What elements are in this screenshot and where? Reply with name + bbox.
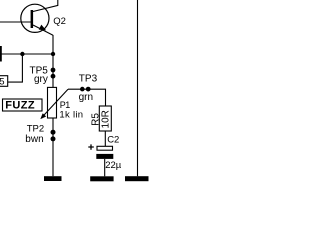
test point TP5	[30, 65, 56, 85]
wire horizontal to left edge	[0, 53, 53, 55]
svg-text:bwn: bwn	[25, 134, 43, 145]
svg-text:C2: C2	[107, 134, 119, 145]
transistor Q2	[21, 0, 66, 35]
svg-text:TP2: TP2	[27, 123, 44, 134]
svg-text:TP3: TP3	[79, 74, 98, 85]
svg-text:10R: 10R	[101, 110, 112, 128]
label FUZZ	[3, 99, 43, 111]
wire P1 bottom to ground	[52, 118, 54, 176]
svg-text:1k lin: 1k lin	[59, 110, 83, 121]
svg-text:Q2: Q2	[53, 16, 66, 27]
component box 5 cut off at left edge	[0, 76, 8, 88]
svg-text:22µ: 22µ	[105, 160, 122, 171]
wire TP5 vertical	[52, 54, 54, 87]
svg-text:P1: P1	[60, 100, 71, 110]
wire wiper to R5	[68, 89, 106, 106]
ground right rail	[125, 176, 149, 181]
resistor R5	[91, 106, 112, 131]
svg-text:grn: grn	[79, 92, 93, 103]
svg-text:gry: gry	[34, 74, 48, 85]
capacitor plate cut off at left edge	[0, 46, 2, 62]
potentiometer P1	[41, 87, 84, 120]
wire base of Q2 from left edge	[0, 21, 31, 23]
node junction left	[20, 52, 24, 56]
test point TP2	[25, 123, 55, 145]
wire C2 to ground	[104, 159, 106, 176]
wire emitter of Q2 down	[52, 35, 54, 54]
wire R5 to C2	[104, 131, 106, 146]
wire right rail	[137, 0, 139, 176]
node junction emitter	[51, 52, 55, 56]
test point TP3	[79, 74, 98, 104]
wire branch down from left junction	[8, 54, 23, 82]
svg-text:5: 5	[0, 77, 4, 88]
svg-text:R5: R5	[91, 113, 102, 126]
ground below C2	[90, 176, 113, 181]
svg-text:FUZZ: FUZZ	[5, 99, 35, 111]
capacitor C2	[88, 134, 121, 171]
ground below TP2	[44, 176, 62, 181]
